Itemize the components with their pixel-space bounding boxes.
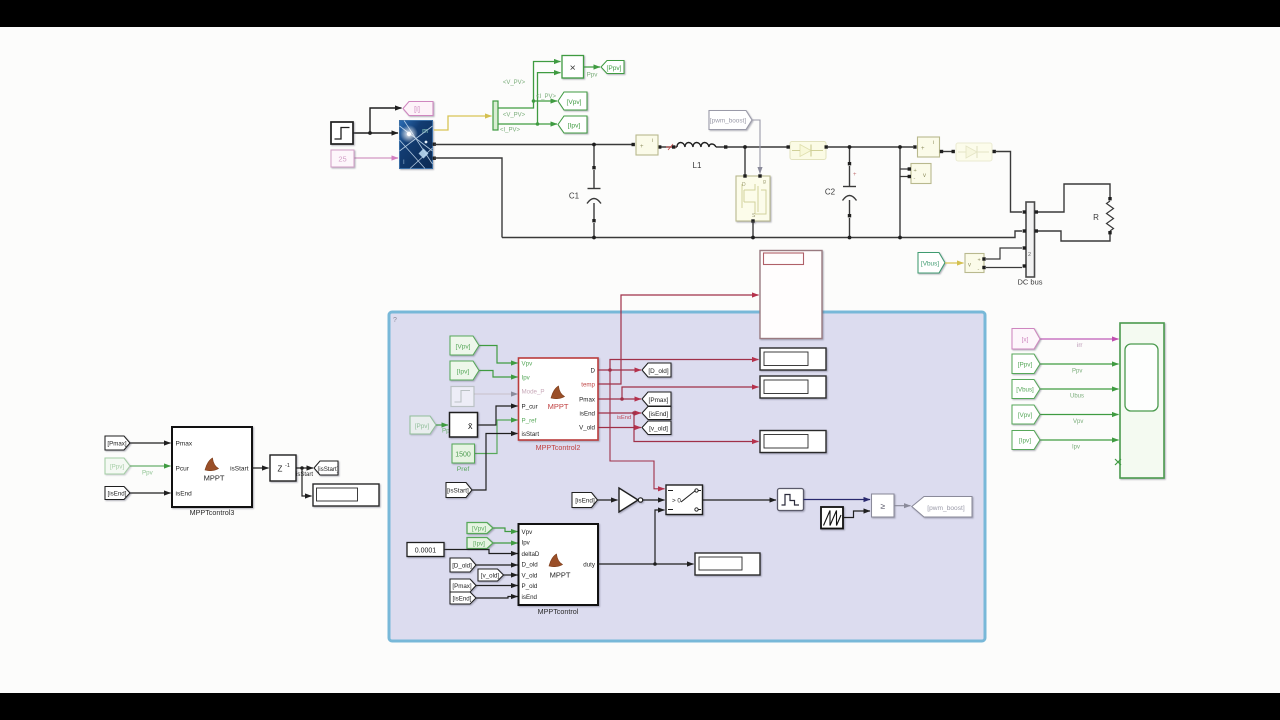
svg-text:MPPT: MPPT [204,474,225,483]
wire temp output up to red display [598,295,759,384]
svg-text:-: - [978,267,980,273]
junction C2 bottom [848,236,852,240]
svg-text:[Ppv]: [Ppv] [606,65,621,72]
svg-text:Ppv: Ppv [587,72,599,79]
wire switch to pulse shaper [703,499,777,501]
svg-text:Ppv: Ppv [142,470,154,477]
svg-text:MPPT: MPPT [548,402,569,411]
capacitor C2 [843,187,857,201]
wire PV m output to bus selector (yellow) [434,116,492,130]
from tag Vpv (MPPTcontrol input) [467,523,493,534]
svg-text:[Pmax]: [Pmax] [452,583,472,590]
svg-text:[Vbus]: [Vbus] [1016,387,1034,394]
svg-text:D_old: D_old [522,562,539,569]
display block 5 (isStart) [313,484,379,506]
svg-text:P_cur: P_cur [522,404,538,411]
switch block [666,485,703,515]
goto tag D_old [642,363,671,377]
svg-text:[Ipv]: [Ipv] [1019,438,1031,445]
svg-text:+: + [914,168,917,174]
junction MOSFET source [751,236,755,240]
port squares PV outputs [433,143,436,146]
svg-text:i: i [933,140,934,146]
svg-text:[isEnd]: [isEnd] [108,491,127,498]
svg-text:Mode_P: Mode_P [522,389,545,396]
display block 4 (duty) [695,553,760,575]
wire Pmax tag to MPPTcontrol3 [130,442,171,444]
from tag Ipv (MPPT2 input) [450,361,479,380]
wire Pmax output to goto Pmax [598,398,641,400]
junction V_PV [532,99,536,103]
constant block 25 (temperature, pink) [331,150,354,167]
svg-text:v: v [968,263,971,269]
stub wires to voltage sensor [900,169,908,177]
mean block [450,413,478,438]
wire D_old tag to MPPTcontrol [476,564,518,566]
svg-text:Pmax: Pmax [579,397,596,404]
svg-text:+: + [853,172,857,178]
wire step to PV array and branch to goto I [353,108,402,133]
wire Pmax tag to MPPTcontrol P_old [476,585,518,587]
resistor R [1107,201,1114,231]
wire isStart tag to MPPTcontrol2 [472,434,518,491]
top rail from sensor to L1 to diode [659,146,788,148]
wire isEnd branch to display3 [634,413,759,442]
svg-text:+: + [921,146,925,152]
svg-text:isEnd: isEnd [522,594,538,601]
wire bus V_PV to product and goto Vpv (green) [498,62,561,125]
C1 port squares [592,166,595,169]
svg-text:V_old: V_old [579,425,595,432]
bus selector [493,101,498,130]
svg-text:isEnd: isEnd [176,491,193,498]
wire Vbus tag to scope [1040,388,1119,390]
wire isEnd tag to NOT gate [598,499,618,501]
MPPTcontrol3 block [172,427,252,507]
svg-text:D: D [742,182,746,188]
svg-text:C1: C1 [569,192,580,201]
DC bus block [1023,202,1038,277]
wire V_old output to goto v_old [598,427,641,429]
goto tag pwm_boost [912,497,972,518]
wire Vpv tag to MPPTcontrol2 [479,346,518,364]
svg-text:Z: Z [278,465,283,474]
svg-text:<V_PV>: <V_PV> [503,113,526,119]
scope trigger mark [1115,459,1121,465]
svg-text:[Vpv]: [Vpv] [472,526,486,533]
current sensor block (input side) [632,135,659,155]
scope block [1120,323,1164,478]
svg-text:isStart: isStart [296,472,313,478]
goto tag Ppv (green) [601,61,624,74]
port squares diode2 [952,150,955,153]
wire v_old tag to MPPTcontrol [504,574,518,576]
display block 2 [760,376,826,398]
junction isStart [300,466,304,470]
wire MOSFET source to bottom rail [752,221,754,238]
svg-text:MPPT: MPPT [550,571,571,580]
junction isEnd [632,411,636,415]
junction Vmeas top [898,145,902,149]
svg-text:[Ppv]: [Ppv] [110,464,124,471]
svg-text:≥: ≥ [880,501,885,511]
wire Vpv tag to MPPTcontrol [493,528,518,532]
svg-text:[Vpv]: [Vpv] [566,99,581,106]
from tag Vpv (scope) [1012,405,1040,424]
svg-text:Ipv: Ipv [522,375,531,382]
current sensor 2 [913,137,943,157]
unit delay block Z-1 [270,455,296,481]
svg-text:[isEnd]: [isEnd] [453,596,472,603]
display block 1 [760,348,826,370]
svg-text:1500: 1500 [455,452,471,459]
svg-text:×: × [570,62,576,74]
wire sensor2 to diode2 [943,151,953,153]
svg-text:[Ipv]: [Ipv] [457,368,470,375]
MPPTcontrol2 block [519,358,599,440]
wire diode2 to DC bus port1 [996,152,1022,213]
wire branch to display5 [302,468,312,496]
MOSFET block [736,174,770,222]
svg-text:temp: temp [581,382,595,389]
svg-text:[Pmax]: [Pmax] [107,441,127,448]
wire Ipv tag to MPPTcontrol [493,542,518,544]
product block Ppv multiply [562,56,584,79]
from tag Ppv (scope) [1012,354,1040,374]
from tag Ipv (MPPTcontrol input) [467,538,493,549]
wire duty branch up to switch input3 [655,510,665,564]
svg-text:Ipv: Ipv [522,540,531,547]
svg-text:isEnd: isEnd [617,415,631,421]
svg-text:[isStart]: [isStart] [447,488,469,495]
from tag Ppv (left, faded green) [105,458,130,474]
wire Ipv tag to MPPTcontrol2 [479,371,518,378]
from tag D_old [450,558,476,572]
svg-text:D: D [591,368,596,375]
R port squares [1108,197,1111,200]
svg-text:duty: duty [583,562,596,569]
svg-text:[isEnd]: [isEnd] [575,498,595,505]
svg-text:[x]: [x] [1022,337,1029,344]
wire pulse shaper to relational operator (navy) [804,499,871,501]
svg-text:<I_PV>: <I_PV> [536,94,557,100]
svg-text:v: v [923,173,926,179]
junction Vmeas bottom [898,236,902,240]
svg-text:Pref: Pref [457,466,470,473]
wire D branch to display1 [610,360,759,371]
junction step wire [368,131,372,135]
wire duty to display4 [598,563,694,565]
voltage sensor V2 [965,254,986,273]
from tag Vbus (scope) [1012,380,1040,399]
svg-text:L1: L1 [693,161,702,170]
svg-text:irr: irr [1077,343,1082,349]
wire Pref 1500 to P_ref [475,420,518,454]
svg-text:MPPTcontrol3: MPPTcontrol3 [190,508,235,517]
wire sawtooth to relational operator [843,511,870,518]
svg-text:[Ipv]: [Ipv] [473,541,485,548]
wire D branch down to switch input1 [610,370,654,486]
svg-text:> 0: > 0 [672,498,681,505]
goto tag Pmax [642,392,671,406]
wire Pmax branch to display2 [622,387,759,399]
wire faded step to Mode_P [474,393,518,395]
wire isEnd tag to MPPTcontrol3 [130,492,171,494]
svg-text:[pwm_boost]: [pwm_boost] [927,505,965,512]
svg-text:isStart: isStart [522,431,540,438]
MPPTcontrol block [519,524,599,605]
junction D [608,368,612,372]
wire diode D1 to C2 junction and sensor2 [828,146,913,148]
svg-text:[isEnd]: [isEnd] [649,411,669,418]
constant block 0.0001 [407,543,444,557]
svg-text:[Ipv]: [Ipv] [568,123,581,130]
junction Pmax [620,397,624,401]
from tag x (pink) [1012,329,1040,350]
svg-text:Vpv: Vpv [522,361,534,368]
wire constant 25 to PV array [354,157,398,159]
svg-text:MPPTcontrol2: MPPTcontrol2 [536,443,581,452]
svg-text:Pmax: Pmax [176,441,193,448]
port squares L1 [658,145,661,148]
wire relational to goto pwm_boost [894,505,911,507]
svg-text:m: m [422,128,428,135]
goto tag v_old [642,421,671,435]
svg-text:[isStart]: [isStart] [318,466,339,473]
svg-text:+: + [640,144,644,150]
from tag isEnd (MPPTcontrol input) [450,592,476,604]
wire unit delay to goto isStart [296,467,313,469]
wire Ppv tag to scope [1040,363,1119,365]
svg-text:0.0001: 0.0001 [415,547,437,554]
svg-text:[Pmax]: [Pmax] [649,397,669,404]
red current direction tick on L1 wire [666,144,676,150]
svg-text:R: R [1093,213,1099,222]
svg-text:Vpv: Vpv [522,529,534,536]
junction C1 top [592,143,596,147]
svg-text:isStart: isStart [230,466,249,473]
goto tag Vbus (green) [918,253,945,274]
goto tag isEnd [642,407,671,420]
wire top rail to C1 branch [593,145,595,238]
capacitor C1 [587,189,601,204]
svg-text:isEnd: isEnd [580,411,596,418]
svg-text:deltaD: deltaD [522,551,540,558]
inductor L1 [677,143,716,148]
svg-text:+: + [978,258,981,264]
from tag v_old [478,569,504,581]
wire Ppv tag to mean block [436,424,448,426]
wire load R bottom to DC bus [1038,231,1110,241]
svg-text:?: ? [393,317,397,324]
svg-text:[Ppv]: [Ppv] [415,423,430,430]
svg-text:P_ref: P_ref [522,418,537,425]
junction duty [653,562,657,566]
svg-text:25: 25 [338,155,346,164]
wire Ipv tag to scope [1040,439,1119,441]
pulse shaper block [778,489,804,511]
from tag isStart [446,483,472,498]
wire pwm_boost to MOSFET gate [752,120,760,174]
svg-text:[v_old]: [v_old] [649,425,668,432]
junction MOSFET drain [743,145,747,149]
svg-text:[I]: [I] [414,107,420,114]
goto tag I (pink) [403,102,433,116]
svg-text:[Vpv]: [Vpv] [455,343,470,350]
from tag Pmax (MPPTcontrol input) [450,579,476,592]
svg-text:[Ppv]: [Ppv] [1018,362,1033,369]
goto tag isStart [314,461,339,475]
svg-text:C2: C2 [825,188,836,197]
wire mean block to P_cur [478,406,518,425]
from tag isEnd (left) [105,487,130,500]
wire isEnd tag to MPPTcontrol [476,597,518,599]
wire V2 to DC bus ports 3-4 [986,248,1022,268]
svg-text:V_old: V_old [522,573,538,580]
svg-text:-: - [914,176,916,182]
svg-text:Ipv: Ipv [1072,445,1080,451]
svg-text:g: g [763,179,766,185]
wire Ppv tag to MPPTcontrol3 Pcur (green) [130,465,171,467]
junction C2 top [848,145,852,149]
from tag Vpv (MPPT2 input) [450,336,479,355]
svg-text:DC bus: DC bus [1017,278,1042,287]
svg-text:[Vbus]: [Vbus] [921,261,939,268]
wire x tag to scope (magenta) [1040,338,1119,340]
from tag Ipv (scope) [1012,431,1040,450]
diode D2 (faded) [956,143,992,161]
wire voltage sensor branch [899,147,901,238]
svg-text:<V_PV>: <V_PV> [503,80,526,86]
step block Irradiance [331,122,353,144]
wire drain junction to MOSFET [744,147,746,176]
subsystem area MPPT control (lavender panel) [389,312,985,641]
svg-text:Pcur: Pcur [176,466,190,473]
constant block 1500 Pref [452,444,475,463]
wire DC bus to load R top [1038,184,1110,212]
svg-text:Vpv: Vpv [1073,419,1083,425]
svg-text:[D_old]: [D_old] [452,563,472,570]
svg-text:Ppv: Ppv [1072,369,1082,375]
svg-text:Ubus: Ubus [1070,394,1084,400]
svg-text:MPPTcontrol: MPPTcontrol [538,607,579,616]
NOT gate [619,488,643,512]
svg-text:2: 2 [1028,252,1031,258]
from tag Pmax (left) [105,436,130,450]
diode D1 [787,142,828,160]
wire C2 branch [849,147,851,238]
wire PV- down to bottom rail [434,158,502,238]
step block Mode (faded) [451,387,474,407]
wire isEnd output to goto isEnd [598,412,641,414]
svg-text:x̄: x̄ [468,421,473,431]
PV array block [400,121,433,169]
wire NOT gate to switch [643,499,665,501]
relational operator block [872,494,895,517]
wire D output to goto D_old [598,369,641,371]
from tag Ppv (faded green) [410,416,436,434]
bottom rail [502,231,1022,238]
svg-text:i: i [652,138,653,144]
goto tag Ipv (green) [558,116,587,133]
wire Vbus tag to voltage sensor V2 (yellow) [945,262,964,264]
from tag isEnd (switch chain) [572,493,598,508]
wire product to goto Ppv [584,66,601,68]
svg-text:[pwm_boost]: [pwm_boost] [710,118,746,125]
svg-text:<I_PV>: <I_PV> [500,128,521,134]
wire Vpv tag to scope [1040,414,1119,416]
wire constant 0.0001 to deltaD [444,550,518,554]
sawtooth generator block [821,507,843,529]
wire MPPTcontrol3 to unit delay [252,467,269,469]
voltage sensor V1 [908,164,931,184]
junction I_PV [536,122,540,126]
svg-text:P_old: P_old [522,583,538,590]
junction C1 bottom [592,236,596,240]
display block 3 [760,431,826,453]
display scope (red bordered, tall) [760,251,822,339]
svg-text:[D_old]: [D_old] [648,368,668,375]
wire PV+ to current sensor (top rail left) [434,144,633,146]
svg-text:-1: -1 [285,463,290,469]
from tag pwm_boost (top) [709,111,752,130]
goto tag Vpv (green) [558,92,587,110]
svg-text:[Vpv]: [Vpv] [1018,412,1033,419]
svg-text:[v_old]: [v_old] [481,573,500,580]
C2 port squares [848,162,851,165]
